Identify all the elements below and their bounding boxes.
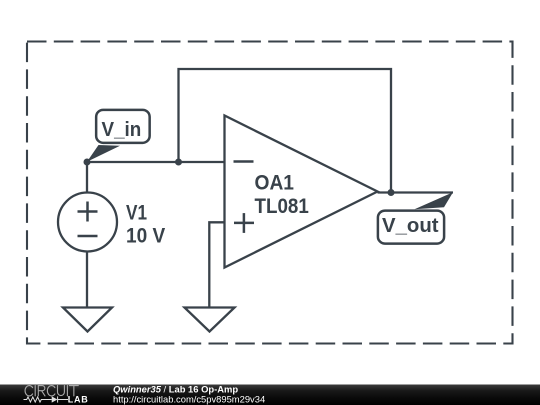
svg-text:V_out: V_out [382,215,439,237]
svg-text:TL081: TL081 [255,195,310,218]
svg-text:10 V: 10 V [126,224,165,247]
svg-text:LAB: LAB [68,395,89,405]
svg-text:V1: V1 [126,202,147,225]
svg-text:V_in: V_in [102,119,142,141]
svg-text:http://circuitlab.com/c5pv895m: http://circuitlab.com/c5pv895m29v34 [113,393,265,404]
svg-text:OA1: OA1 [255,172,295,195]
